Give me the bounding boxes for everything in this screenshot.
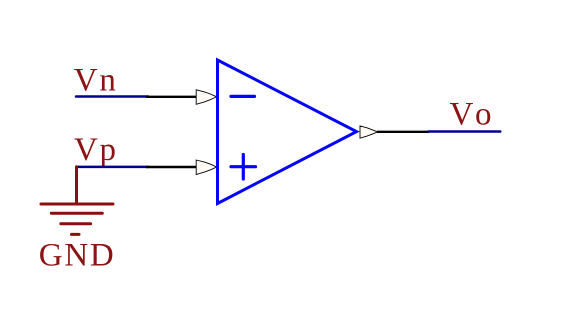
wire non-inverting-input pin stub (black) — [146, 166, 197, 168]
ground GND — [41, 167, 113, 235]
svg-text:Vo: Vo — [450, 97, 494, 133]
wire Vn net (navy) — [76, 95, 148, 98]
ground bar 3 — [61, 222, 91, 225]
pin arrow, output — [360, 126, 378, 138]
svg-text:Vp: Vp — [74, 132, 118, 168]
ground bar 1 — [41, 203, 113, 206]
pin arrow, non-inverting input — [196, 160, 216, 175]
ground bar 2 — [51, 212, 102, 215]
wire Vo net (navy) — [429, 130, 501, 133]
op-amp plus (non-inverting) mark — [231, 165, 256, 168]
wire Vp net (navy) — [76, 166, 148, 169]
ground bar 4 — [72, 233, 80, 236]
op-amp triangle body — [218, 60, 357, 204]
wire output pin stub (black) — [377, 131, 429, 133]
svg-text:GND: GND — [39, 238, 116, 274]
op-amp minus (inverting) mark — [231, 95, 255, 98]
svg-text:Vn: Vn — [74, 63, 118, 99]
pin arrow, inverting input — [196, 90, 216, 105]
wire inverting-input pin stub (black) — [146, 96, 197, 98]
ground stem wire — [75, 167, 78, 203]
op-amp U1 — [218, 60, 357, 204]
